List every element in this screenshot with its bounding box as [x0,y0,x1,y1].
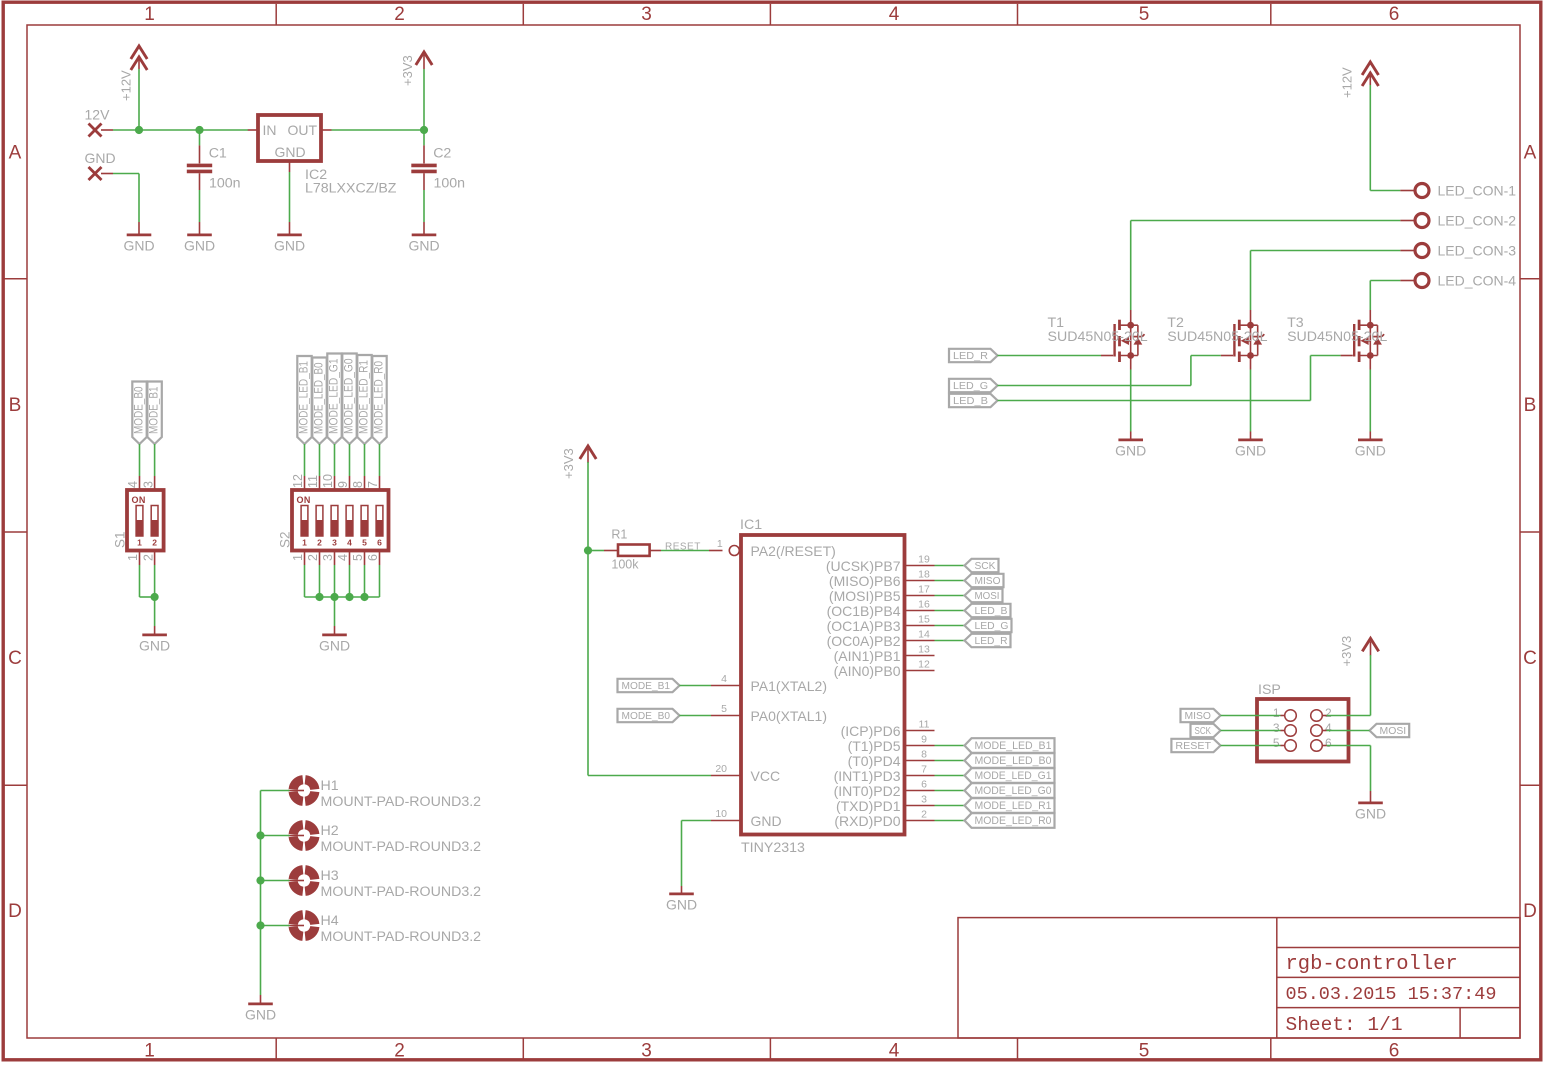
value SUD45N05-20L [1167,329,1267,345]
svg-text:GND: GND [139,637,170,653]
svg-text:(MOSI)PB5: (MOSI)PB5 [829,588,901,604]
svg-text:A: A [9,143,22,164]
svg-text:1: 1 [717,538,723,550]
svg-text:10: 10 [321,474,335,488]
svg-text:7: 7 [921,764,927,776]
svg-text:GND: GND [1115,442,1146,458]
transistor T3 [1341,310,1385,370]
wire [935,580,965,582]
net flag MISO (isp) [1181,709,1221,722]
mount pad H3 [288,870,315,892]
transistor T1 [1101,310,1145,370]
svg-text:4: 4 [889,1041,900,1062]
svg-text:5: 5 [1139,1041,1150,1062]
svg-text:12V: 12V [85,107,111,123]
svg-text:SUD45N05-20L: SUD45N05-20L [1167,329,1267,345]
svg-text:MOUNT-PAD-ROUND3.2: MOUNT-PAD-ROUND3.2 [321,794,482,810]
wire +12v to led_con-1 [1370,85,1400,191]
net flag RESET (isp) [1171,739,1220,752]
svg-text:MISO: MISO [1185,711,1212,722]
net flag MODE_B1 (mcu) [618,679,680,692]
value 100n [209,176,241,192]
net flag LED_R [965,634,1011,647]
svg-text:(TXD)PD1: (TXD)PD1 [836,798,901,814]
svg-text:H2: H2 [321,823,339,839]
wire +3v3 to vcc [588,462,711,776]
pin 4 (ISP) [1325,721,1332,735]
svg-text:5: 5 [721,703,727,715]
pin 5 [711,703,741,716]
pin 9 [905,734,935,746]
svg-text:2: 2 [1325,706,1332,720]
mount pad H4 [288,915,315,937]
svg-text:C1: C1 [209,146,227,162]
svg-text:15: 15 [918,614,930,626]
wire s2 to gnd [305,565,380,626]
pin 18 [905,569,935,581]
svg-text:LED_G: LED_G [975,621,1009,632]
pin 2 [905,809,935,821]
label H4 [321,913,339,929]
wire [935,610,965,612]
value MOUNT-PAD-ROUND3.2 [321,839,482,855]
svg-text:GND: GND [1355,442,1386,458]
net flag MOSI (isp) [1370,724,1410,737]
svg-text:GND: GND [1355,805,1386,821]
svg-text:05.03.2015 15:37:49: 05.03.2015 15:37:49 [1286,984,1497,1005]
svg-text:ON: ON [297,495,311,505]
capacitor C1 [187,130,212,222]
svg-text:100n: 100n [209,176,241,192]
svg-text:C: C [8,648,22,669]
svg-text:9: 9 [921,734,927,746]
transistor T2 [1221,310,1265,370]
svg-text:C2: C2 [433,146,451,162]
svg-text:2: 2 [394,1041,405,1062]
net flag MODE_LED_B0 [311,358,326,445]
svg-text:(INT1)PD3: (INT1)PD3 [834,768,901,784]
svg-text:R1: R1 [611,528,627,542]
svg-text:11: 11 [306,475,320,488]
connector ISP [1257,699,1349,762]
value TINY2313 [741,840,805,856]
wire regulator out [332,129,425,131]
svg-text:14: 14 [918,629,930,641]
svg-text:6: 6 [1389,1041,1400,1062]
net flag LED_R [949,349,998,362]
svg-text:(OC0A)PB2: (OC0A)PB2 [827,633,901,649]
net flag MODE_LED_R0 [371,356,386,444]
svg-text:MODE_LED_R0: MODE_LED_R0 [371,361,385,434]
pin 6 (ISP) [1325,736,1332,750]
svg-text:5: 5 [1139,4,1150,25]
svg-text:GND: GND [274,237,305,253]
svg-text:L78LXXCZ/BZ: L78LXXCZ/BZ [305,181,397,197]
svg-text:Sheet: 1/1: Sheet: 1/1 [1286,1014,1403,1036]
svg-text:MODE_B0: MODE_B0 [622,711,671,722]
svg-text:8: 8 [921,749,927,761]
wire [935,745,965,747]
ground [319,626,350,653]
svg-text:+3V3: +3V3 [1339,636,1354,667]
svg-text:6: 6 [1325,736,1332,750]
svg-text:PA2(/RESET): PA2(/RESET) [751,543,836,559]
ground [1115,432,1146,459]
svg-text:SUD45N05-20L: SUD45N05-20L [1287,329,1387,345]
svg-text:MODE_LED_B0: MODE_LED_B0 [311,362,325,434]
wire mode_b1 [680,685,712,687]
supply symbol +12V (top left) [119,46,148,101]
junction [135,126,143,134]
wire mode_b0 [680,715,712,717]
connector pad LED_CON-3 [1400,244,1429,258]
svg-text:6: 6 [921,779,927,791]
wire mode_led_b0 [319,444,321,476]
svg-text:1: 1 [291,554,305,561]
svg-text:VCC: VCC [751,768,781,784]
wire s1 to gnd [140,565,155,626]
svg-text:3: 3 [321,554,335,561]
pin 3 [141,476,155,490]
supply symbol +3V3 (mcu) [561,446,596,479]
svg-text:GND: GND [408,237,439,253]
node 12V input [85,107,111,137]
wire 12V rail [101,129,248,131]
svg-text:3: 3 [332,538,337,548]
pin 19 [905,554,935,566]
svg-text:7: 7 [366,481,380,488]
pin 13 [905,644,935,656]
net flag SCK [965,559,999,572]
dip switch S1 [113,490,164,551]
svg-text:100n: 100n [434,176,466,192]
ground [1355,791,1386,821]
supply symbol +12V (right) [1340,62,1379,98]
wire regulator gnd [289,172,291,222]
wire mode_b1 [154,444,156,476]
svg-text:MISO: MISO [975,576,1001,587]
svg-text:2: 2 [152,538,157,548]
wire [935,760,965,762]
wire mode_led_r1 [364,444,366,476]
net flag LED_B [949,394,998,407]
net flag MODE_LED_B0 (mcu) [965,753,1055,768]
wire +3v3 to isp pin 2 [1322,655,1370,716]
pin 16 [905,599,935,611]
microcontroller IC1 TINY2313 [741,535,905,835]
svg-text:6: 6 [1389,4,1400,25]
pin 5 (ISP) [1273,736,1280,750]
svg-text:8: 8 [351,481,365,488]
svg-text:D: D [8,901,22,922]
svg-text:1: 1 [144,1041,155,1062]
wire [935,625,965,627]
pin 1 [291,551,305,566]
svg-text:LED_B: LED_B [953,396,988,407]
voltage regulator IC2 [248,115,332,172]
pin 4 [711,673,741,686]
date text [1286,984,1497,1005]
wire [935,640,965,642]
pin 1 [126,551,140,566]
svg-text:MOSI: MOSI [975,591,1000,602]
label T1 [1048,315,1065,331]
svg-text:LED_B: LED_B [975,606,1008,617]
net flag MODE_LED_G0 (mcu) [965,783,1055,798]
svg-text:PA0(XTAL1): PA0(XTAL1) [751,708,828,724]
svg-text:MOSI: MOSI [1380,726,1407,737]
svg-text:16: 16 [918,599,930,611]
pin 3 (ISP) [1273,721,1280,735]
svg-text:TINY2313: TINY2313 [741,840,805,856]
ground [1355,432,1386,459]
junction [256,876,264,884]
svg-text:5: 5 [1273,736,1280,750]
net flag MODE_B0 [131,382,146,445]
net flag MODE_LED_R1 (mcu) [965,798,1055,813]
svg-text:LED_G: LED_G [953,381,988,392]
pin 1 with inversion circle [717,538,739,556]
label C2 [433,146,451,162]
svg-text:GND: GND [1235,442,1266,458]
svg-text:(OC1A)PB3: (OC1A)PB3 [827,618,901,634]
wire mount pads gnd [261,791,290,996]
svg-text:B: B [1524,395,1537,416]
wire [935,595,965,597]
wire t3 drain to led_con-4 [1370,281,1400,311]
ground [1235,432,1266,459]
wire gnd input [101,174,139,223]
value 100n [434,176,466,192]
svg-text:MOUNT-PAD-ROUND3.2: MOUNT-PAD-ROUND3.2 [321,929,482,945]
wire mode_b0 [139,444,141,476]
svg-text:(INT0)PD2: (INT0)PD2 [834,783,901,799]
svg-text:MODE_LED_G1: MODE_LED_G1 [975,770,1052,782]
wire t1 drain to led_con-2 [1131,221,1401,311]
svg-text:3: 3 [1273,721,1280,735]
title text rgb-controller [1286,953,1458,976]
svg-text:ON: ON [132,495,146,505]
mount pad H2 [288,825,315,847]
svg-text:13: 13 [918,644,930,656]
pin 6 [905,779,935,791]
svg-text:MODE_B1: MODE_B1 [622,681,671,692]
pin 11 [306,475,320,490]
svg-text:rgb-controller: rgb-controller [1286,953,1458,976]
label IC1 [740,517,762,533]
junction [315,593,323,601]
svg-text:1: 1 [126,554,140,561]
svg-text:SCK: SCK [1195,726,1212,737]
value 100k [611,558,639,572]
svg-text:(ICP)PD6: (ICP)PD6 [841,723,901,739]
svg-text:4: 4 [347,538,352,548]
pin 4 [336,551,350,566]
svg-text:S1: S1 [113,531,128,548]
pin 8 [905,749,935,761]
wire sck [1221,730,1285,732]
pin 14 [905,629,935,641]
net flag LED_G [965,619,1012,632]
pin 7 [905,764,935,776]
svg-text:(T1)PD5: (T1)PD5 [848,738,901,754]
connector pad LED_CON-1 [1400,184,1429,198]
svg-text:GND: GND [319,637,350,653]
supply symbol +3V3 (isp) [1339,636,1379,667]
label T3 [1287,315,1304,331]
pin 10 GND [711,808,741,821]
junction [584,546,592,554]
pin 15 [905,614,935,626]
svg-text:1: 1 [144,4,155,25]
label LED_CON-3 [1438,243,1517,259]
net flag MODE_LED_R0 (mcu) [965,813,1055,828]
svg-text:10: 10 [715,808,727,820]
wire mode_led_g0 [349,444,351,476]
pin 20 VCC [711,763,741,776]
junction [151,593,159,601]
svg-text:4: 4 [126,481,140,488]
connector pad LED_CON-4 [1400,274,1429,288]
pin 2 [306,551,320,566]
svg-text:ISP: ISP [1258,682,1281,698]
value SUD45N05-20L [1287,329,1387,345]
pin 4 [126,476,140,490]
junction [256,921,264,929]
svg-text:GND: GND [751,813,782,829]
wire led_b to t3 gate [998,356,1341,401]
svg-text:100k: 100k [611,558,639,572]
wire [935,775,965,777]
pin 7 [366,476,380,490]
ground [666,886,697,912]
pin 3 [321,551,335,566]
wire isp pin 6 to gnd [1322,746,1370,792]
resistor R1 [588,545,661,556]
svg-text:+3V3: +3V3 [561,448,576,479]
wire [935,820,965,822]
svg-text:SUD45N05-20L: SUD45N05-20L [1048,329,1148,345]
wire miso [1221,715,1285,717]
svg-text:LED_CON-1: LED_CON-1 [1438,183,1517,199]
sheet text [1286,1014,1403,1036]
ground [123,222,154,253]
ground [408,222,439,253]
svg-text:+12V: +12V [1340,67,1355,98]
label IC2 [305,167,327,183]
net flag LED_G [949,379,998,392]
svg-text:3: 3 [641,1041,652,1062]
junction [330,593,338,601]
svg-text:LED_CON-2: LED_CON-2 [1438,213,1517,229]
svg-text:2: 2 [141,554,155,561]
wire [935,565,965,567]
svg-text:12: 12 [291,474,305,488]
value MOUNT-PAD-ROUND3.2 [321,794,482,810]
net flag SCK (isp) [1191,724,1221,737]
label LED_CON-4 [1438,273,1517,289]
svg-text:IN: IN [263,122,277,138]
svg-text:MODE_LED_R0: MODE_LED_R0 [975,815,1052,827]
svg-text:GND: GND [184,237,215,253]
wire reset [1221,745,1285,747]
wire t2 source to gnd [1250,370,1252,432]
svg-text:4: 4 [721,673,727,685]
svg-text:LED_R: LED_R [975,636,1008,647]
svg-text:MODE_B0: MODE_B0 [131,386,145,434]
svg-text:MODE_LED_G0: MODE_LED_G0 [975,785,1052,797]
svg-text:H3: H3 [321,868,339,884]
net flag MOSI [965,589,1003,602]
dip switch S2 [278,490,389,551]
svg-text:4: 4 [1325,721,1332,735]
svg-text:GND: GND [666,896,697,912]
pin 10 [321,474,335,490]
svg-text:19: 19 [918,554,930,566]
svg-text:PA1(XTAL2): PA1(XTAL2) [751,678,828,694]
svg-text:(UCSK)PB7: (UCSK)PB7 [826,558,901,574]
svg-text:(T0)PD4: (T0)PD4 [848,753,901,769]
svg-text:3: 3 [641,4,652,25]
svg-text:(OC1B)PB4: (OC1B)PB4 [827,603,901,619]
wire +3V3 [423,69,425,130]
svg-text:A: A [1524,143,1537,164]
svg-text:(AIN0)PB0: (AIN0)PB0 [834,663,901,679]
wire mcu gnd [682,821,712,887]
svg-text:LED_CON-3: LED_CON-3 [1438,243,1517,259]
svg-text:MODE_LED_R1: MODE_LED_R1 [356,360,370,434]
wire t2 drain to led_con-3 [1251,251,1401,311]
svg-text:GND: GND [123,237,154,253]
svg-text:20: 20 [715,763,727,775]
ground [245,995,276,1022]
svg-text:MODE_LED_B1: MODE_LED_B1 [975,740,1052,752]
svg-text:6: 6 [366,554,380,561]
net flag MODE_LED_B1 [296,356,311,444]
net flag MODE_LED_G0 [341,354,356,445]
svg-text:18: 18 [918,569,930,581]
svg-text:MODE_LED_G0: MODE_LED_G0 [341,358,355,434]
label LED_CON-1 [1438,183,1517,199]
wire [935,790,965,792]
svg-text:MODE_LED_G1: MODE_LED_G1 [326,358,340,434]
junction [256,831,264,839]
svg-text:1: 1 [302,538,307,548]
svg-text:MODE_B1: MODE_B1 [146,386,160,434]
pin 2 (ISP) [1325,706,1332,720]
svg-text:12: 12 [918,659,930,671]
node GND input [85,150,116,180]
svg-text:+12V: +12V [119,70,134,101]
svg-text:11: 11 [919,719,930,731]
net flag MISO [965,574,1004,587]
svg-text:C: C [1523,648,1537,669]
svg-text:OUT: OUT [287,122,317,138]
net flag MODE_B0 (mcu) [618,709,680,722]
pin 1 (ISP) [1273,706,1280,720]
net flag MODE_LED_R1 [356,355,371,444]
svg-text:D: D [1523,901,1537,922]
svg-text:LED_CON-4: LED_CON-4 [1438,273,1517,289]
svg-text:RESET: RESET [665,542,701,553]
svg-text:MOUNT-PAD-ROUND3.2: MOUNT-PAD-ROUND3.2 [321,884,482,900]
wire mode_led_g1 [334,444,336,476]
label LED_CON-2 [1438,213,1517,229]
pin 12 [291,474,305,490]
svg-text:6: 6 [377,538,382,548]
capacitor C2 [411,130,436,222]
svg-text:(AIN1)PB1: (AIN1)PB1 [834,648,901,664]
